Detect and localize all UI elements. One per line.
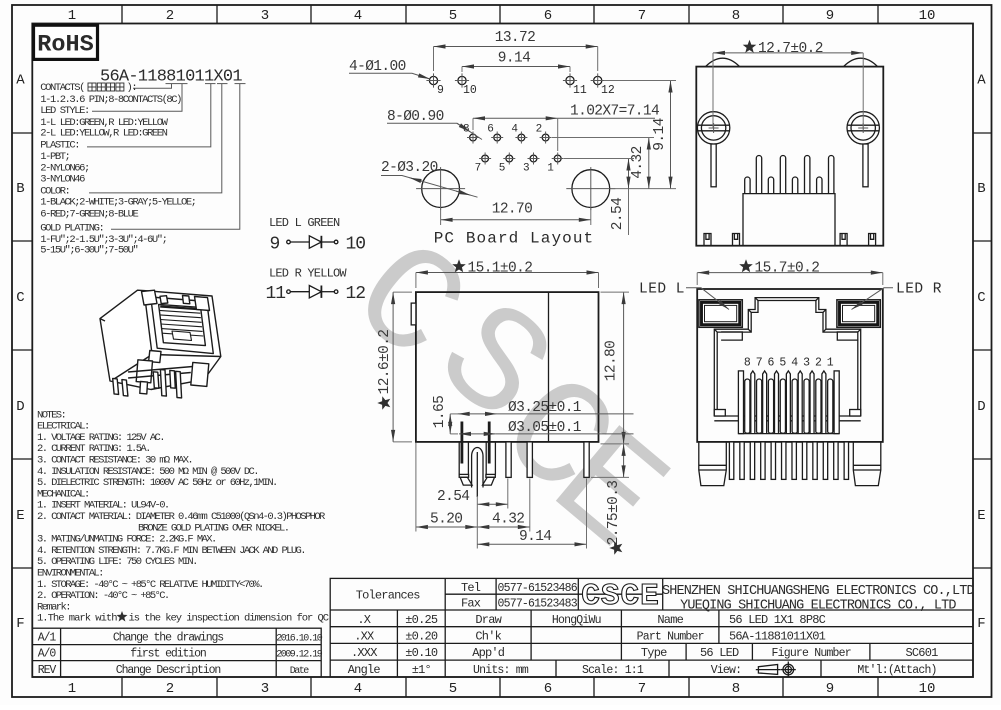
- svg-text:A/0: A/0: [38, 648, 57, 661]
- bottom notches: [704, 234, 711, 246]
- svg-text:C: C: [16, 290, 24, 306]
- snap post (split prongs): [458, 442, 460, 475]
- svg-text:15.1±0.2: 15.1±0.2: [468, 261, 533, 277]
- svg-text:Mt'l:(Attach): Mt'l:(Attach): [857, 664, 936, 677]
- svg-text:Scale: 1:1: Scale: 1:1: [582, 664, 644, 677]
- svg-text:NOTES:: NOTES:: [37, 409, 65, 421]
- svg-text:Units: mm: Units: mm: [473, 664, 529, 677]
- dim 4.32 (side): [477, 526, 530, 528]
- svg-text:3: 3: [261, 681, 269, 697]
- svg-text:56 LED: 56 LED: [700, 646, 739, 660]
- svg-text:6: 6: [768, 357, 775, 370]
- svg-text:B: B: [977, 181, 985, 197]
- svg-text:2.54: 2.54: [437, 489, 469, 505]
- dim 2.54 vertical: [628, 159, 630, 189]
- svg-text:1: 1: [827, 357, 834, 370]
- svg-text:6: 6: [544, 8, 552, 24]
- svg-text:2016.10.10: 2016.10.10: [276, 634, 323, 645]
- svg-text:7: 7: [638, 8, 646, 24]
- svg-text:4-Ø1.00: 4-Ø1.00: [349, 59, 406, 75]
- cavity outline inner: [717, 301, 858, 417]
- RoHS logo box: [34, 25, 98, 59]
- svg-text:ENVIRONMENTAL:: ENVIRONMENTAL:: [37, 568, 103, 580]
- isometric view of connector: [100, 290, 221, 398]
- svg-text:15.7±0.2: 15.7±0.2: [755, 261, 820, 277]
- LED ledges: [721, 332, 742, 340]
- svg-text:BRONZE GOLD PLATING OVER NICKE: BRONZE GOLD PLATING OVER NICKEL.: [138, 522, 288, 534]
- svg-text:2-Ø3.20: 2-Ø3.20: [381, 160, 438, 176]
- svg-text:ELECTRICAL:: ELECTRICAL:: [37, 421, 89, 433]
- svg-text:4: 4: [791, 357, 798, 370]
- svg-text:9.14: 9.14: [519, 529, 551, 545]
- row ticks left/right: [12, 132, 32, 134]
- svg-text:REV: REV: [38, 664, 57, 677]
- svg-text:CSCE: CSCE: [581, 579, 659, 614]
- svg-text:4.32: 4.32: [492, 512, 524, 528]
- svg-text:3: 3: [803, 357, 810, 370]
- svg-text:1.65: 1.65: [432, 396, 448, 428]
- svg-text:8: 8: [732, 681, 740, 697]
- svg-text:SHENZHEN SHICHUANGSHENG ELECTR: SHENZHEN SHICHUANGSHENG ELECTRONICS CO.,…: [662, 584, 975, 599]
- svg-text:5: 5: [449, 681, 457, 697]
- dim 12.70: [441, 219, 591, 221]
- svg-text:2.54: 2.54: [610, 198, 626, 230]
- svg-text:4: 4: [354, 8, 362, 24]
- cavity bottom ledge lines: [714, 415, 860, 417]
- LED windows: [699, 300, 742, 328]
- svg-text:B: B: [16, 181, 24, 197]
- svg-text:YUEQING SHICHUANG ELECTRONICS: YUEQING SHICHUANG ELECTRONICS CO., LTD: [680, 599, 956, 614]
- small holes 8,6,4,2 (top row): [470, 134, 477, 141]
- third angle projection symbol: [756, 662, 796, 678]
- svg-text:9.14: 9.14: [498, 51, 530, 67]
- svg-text:3: 3: [261, 8, 269, 24]
- bottom view body: [696, 67, 883, 246]
- svg-text:4: 4: [354, 681, 362, 697]
- svg-text:10: 10: [919, 8, 936, 24]
- svg-text:PC Board Layout: PC Board Layout: [434, 230, 595, 248]
- svg-text:E: E: [977, 508, 985, 524]
- svg-text:7: 7: [638, 681, 646, 697]
- svg-text:4. INSULATION RESISTANCE: 500: 4. INSULATION RESISTANCE: 500 MΩ MIN @ 5…: [37, 466, 258, 478]
- svg-text:5: 5: [779, 357, 786, 370]
- svg-text:12.6±0.2: 12.6±0.2: [377, 330, 393, 395]
- svg-text:C: C: [977, 290, 985, 306]
- svg-text:first edition: first edition: [130, 648, 206, 661]
- dim 1.65: [449, 414, 451, 434]
- cavity step miters: [714, 329, 717, 332]
- svg-text:View:: View:: [711, 664, 742, 677]
- svg-text:3: 3: [523, 163, 530, 175]
- svg-text:4: 4: [511, 124, 518, 136]
- svg-text:.XX: .XX: [354, 630, 374, 644]
- svg-text:CONTACTS(: CONTACTS(: [40, 82, 84, 94]
- svg-text:1-BLACK;2-WHITE;3-GRAY;5-YELLO: 1-BLACK;2-WHITE;3-GRAY;5-YELLOE;: [40, 197, 195, 209]
- svg-text:1. INSERT MATERIAL: UL94V-0.: 1. INSERT MATERIAL: UL94V-0.: [37, 500, 169, 512]
- svg-text:Part Number: Part Number: [637, 631, 704, 644]
- contacts: [745, 379, 750, 433]
- svg-text:F: F: [16, 616, 24, 632]
- big circles 2-Ø3.20: [422, 170, 460, 208]
- svg-text:5.20: 5.20: [430, 512, 462, 528]
- svg-text:6: 6: [487, 124, 494, 136]
- svg-text:9: 9: [270, 235, 280, 255]
- svg-text:1: 1: [547, 163, 554, 175]
- svg-text:2-L LED:YELLOW,R LED:GREEN: 2-L LED:YELLOW,R LED:GREEN: [40, 128, 167, 140]
- svg-text:Type: Type: [641, 646, 667, 660]
- side view body: [416, 292, 599, 442]
- svg-text:3. CONTACT RESISTANCE: 30 mΩ M: 3. CONTACT RESISTANCE: 30 mΩ MAX.: [37, 455, 192, 467]
- svg-text:1-1.2.3.6 PIN;8-8CONTACTS(8C): 1-1.2.3.6 PIN;8-8CONTACTS(8C): [40, 94, 181, 106]
- front view body: [697, 289, 883, 442]
- svg-text:5: 5: [499, 163, 506, 175]
- dim Ø3.25±0.1: [458, 413, 497, 415]
- svg-text:6: 6: [544, 681, 552, 697]
- svg-text:.X: .X: [357, 613, 370, 627]
- svg-text:):: ):: [127, 82, 137, 94]
- dim 9.14 (side): [477, 543, 586, 545]
- svg-text:1.The mark with: 1.The mark with: [37, 613, 117, 625]
- svg-text:10: 10: [919, 681, 936, 697]
- svg-text:8: 8: [732, 8, 740, 24]
- center base block: [743, 194, 835, 246]
- svg-text:7: 7: [475, 163, 482, 175]
- side tab: [411, 303, 416, 325]
- svg-text:2009.12.19: 2009.12.19: [276, 650, 323, 661]
- svg-text:HongQiWu: HongQiWu: [552, 614, 601, 627]
- svg-text:2. CURRENT RATING: 1.5A.: 2. CURRENT RATING: 1.5A.: [37, 443, 150, 455]
- svg-text:LED R YELLOW: LED R YELLOW: [269, 267, 347, 281]
- svg-text:Remark:: Remark:: [37, 601, 70, 613]
- comb teeth: [751, 371, 755, 434]
- shield fingers below body: [729, 442, 733, 480]
- svg-text:±1°: ±1°: [412, 663, 431, 677]
- svg-text:A/1: A/1: [38, 632, 57, 645]
- svg-text:12.7±0.2: 12.7±0.2: [758, 41, 823, 57]
- svg-text:2: 2: [166, 8, 174, 24]
- svg-text:9: 9: [826, 8, 834, 24]
- cavity outline outer: [714, 298, 860, 416]
- PCB pins (side view): [506, 442, 511, 478]
- svg-text:1-PBT;: 1-PBT;: [40, 151, 69, 163]
- dim 12.80: [623, 292, 625, 444]
- svg-text:GOLD PLATING:: GOLD PLATING:: [40, 223, 103, 235]
- svg-text:Tolerances: Tolerances: [356, 589, 421, 603]
- svg-text:2. OPERATION: -40°C ~ +85°C.: 2. OPERATION: -40°C ~ +85°C.: [37, 590, 169, 602]
- dim 15.1±0.2: [416, 272, 599, 274]
- svg-text:56 LED 1X1 8P8C: 56 LED 1X1 8P8C: [729, 613, 826, 627]
- side posts: [699, 442, 727, 486]
- svg-text:LED L GREEN: LED L GREEN: [269, 216, 340, 230]
- svg-text:7: 7: [756, 357, 763, 370]
- svg-text:PLASTIC:: PLASTIC:: [40, 139, 79, 151]
- svg-text:A: A: [977, 73, 986, 89]
- svg-text:4. RETENTION STRENGTH: 7.7KG.F: 4. RETENTION STRENGTH: 7.7KG.F MIN BETWE…: [37, 545, 305, 557]
- svg-text:2. CONTACT MATERIAL: DIAMETER: 2. CONTACT MATERIAL: DIAMETER 0.46mm C51…: [37, 511, 326, 523]
- LED posts (circles): [697, 112, 729, 144]
- svg-text:8: 8: [744, 357, 751, 370]
- svg-text:4.32: 4.32: [630, 146, 646, 178]
- LED legs: [711, 144, 716, 187]
- svg-text:5. OPERATING LIFE: 750 CYCLES: 5. OPERATING LIFE: 750 CYCLES MIN.: [37, 556, 197, 568]
- svg-text:Tel: Tel: [461, 581, 481, 595]
- svg-text:Ø3.05±0.1: Ø3.05±0.1: [508, 420, 581, 436]
- svg-text:Figure Number: Figure Number: [772, 647, 851, 660]
- svg-text:5: 5: [449, 8, 457, 24]
- dim 9.14 vertical: [670, 81, 672, 189]
- svg-text:MECHANICAL:: MECHANICAL:: [37, 488, 89, 500]
- svg-text:2: 2: [536, 124, 543, 136]
- svg-text:SC601: SC601: [905, 646, 938, 660]
- legend leader lines: [133, 84, 172, 89]
- svg-text:2: 2: [815, 357, 822, 370]
- svg-text:12.80: 12.80: [604, 341, 620, 382]
- svg-text:8-Ø0.90: 8-Ø0.90: [387, 109, 444, 125]
- svg-text:56A-11881011X01: 56A-11881011X01: [729, 630, 826, 644]
- svg-text:1: 1: [68, 8, 76, 24]
- dim 5.20: [416, 526, 477, 528]
- dim 12.7±0.2: [713, 52, 863, 54]
- part-number digit underlines: [166, 83, 177, 85]
- svg-text:5-15U";6-30U";7-50U": 5-15U";6-30U";7-50U": [40, 244, 137, 256]
- revision table: [32, 628, 321, 677]
- svg-text:9: 9: [826, 681, 834, 697]
- svg-text:LED R: LED R: [896, 282, 942, 298]
- title block: [330, 578, 973, 677]
- contact tails (side, thick): [460, 422, 463, 464]
- svg-text:1. VOLTAGE RATING: 125V AC.: 1. VOLTAGE RATING: 125V AC.: [37, 432, 164, 444]
- column ticks top/bottom: [121, 5, 123, 24]
- dim 15.7±0.2: [697, 272, 883, 274]
- svg-text:12.70: 12.70: [492, 202, 533, 218]
- side view face divider: [548, 292, 550, 442]
- svg-text:9: 9: [437, 84, 444, 97]
- svg-text:LED L: LED L: [639, 282, 685, 298]
- svg-text:Name: Name: [657, 613, 683, 627]
- svg-text:11: 11: [573, 84, 587, 97]
- svg-text:Ch'k: Ch'k: [475, 630, 501, 644]
- svg-text:A: A: [16, 73, 25, 89]
- svg-text:F: F: [977, 616, 985, 632]
- svg-text:D: D: [977, 399, 985, 415]
- svg-text:10: 10: [346, 235, 366, 255]
- svg-text:E: E: [16, 508, 24, 524]
- svg-text:1: 1: [68, 681, 76, 697]
- svg-text:±0.25: ±0.25: [405, 613, 438, 627]
- svg-text:Angle: Angle: [348, 663, 381, 677]
- dim Ø3.05±0.1: [459, 433, 496, 435]
- svg-text:.XXX: .XXX: [351, 646, 377, 660]
- cavity corner blocks: [714, 410, 725, 417]
- dim 4.32 vertical: [648, 138, 650, 189]
- svg-text:1. STORAGE: -40°C ~ +85°C RELA: 1. STORAGE: -40°C ~ +85°C RELATIVE HUMID…: [37, 579, 263, 591]
- svg-text:12: 12: [346, 284, 366, 304]
- svg-text:App'd: App'd: [472, 646, 505, 660]
- svg-text:9.14: 9.14: [652, 118, 668, 150]
- svg-text:±0.10: ±0.10: [405, 646, 438, 660]
- svg-text:12: 12: [601, 84, 615, 97]
- svg-text:1.02X7=7.14: 1.02X7=7.14: [570, 104, 659, 120]
- svg-text:3. MATING/UNMATING FORCE: 2.2K: 3. MATING/UNMATING FORCE: 2.2KG.F MAX.: [37, 534, 216, 546]
- svg-text:Ø3.25±0.1: Ø3.25±0.1: [508, 400, 581, 416]
- dim 2.54 (side): [477, 503, 508, 505]
- holes 9-12 (4-Ø1.00): [429, 76, 437, 84]
- dome bumps: [706, 58, 740, 66]
- svg-text:5. DIELECTRIC STRENGTH: 1000V: 5. DIELECTRIC STRENGTH: 1000V AC 50Hz or…: [37, 477, 277, 489]
- svg-text:2: 2: [166, 681, 174, 697]
- svg-text:Change Description: Change Description: [116, 664, 221, 677]
- svg-text:LED STYLE:: LED STYLE:: [40, 105, 89, 117]
- svg-text:13.72: 13.72: [495, 30, 536, 46]
- svg-text:0577-61523486: 0577-61523486: [498, 582, 578, 595]
- svg-text:±0.20: ±0.20: [405, 630, 438, 644]
- svg-text:2.75±0.3: 2.75±0.3: [606, 481, 622, 546]
- dim 2.75±0.3: [623, 444, 625, 478]
- svg-text:Change the drawings: Change the drawings: [113, 632, 223, 645]
- svg-text:D: D: [16, 399, 24, 415]
- svg-text:Fax: Fax: [461, 596, 481, 610]
- contact comb outer walls: [738, 371, 743, 434]
- svg-text:Draw: Draw: [475, 613, 502, 627]
- svg-text:COLOR:: COLOR:: [40, 185, 69, 197]
- svg-text:RoHS: RoHS: [37, 32, 93, 59]
- svg-text:Date: Date: [290, 666, 310, 677]
- svg-text:6-RED;7-GREEN;8-BLUE: 6-RED;7-GREEN;8-BLUE: [40, 209, 138, 221]
- svg-text:10: 10: [463, 84, 477, 97]
- staggered pins: [756, 155, 761, 193]
- svg-text:11: 11: [266, 284, 286, 304]
- dim 12.6±0.2: [392, 292, 394, 442]
- comb bottom line: [738, 433, 839, 435]
- svg-text:is the key inspection dimensio: is the key inspection dimension for QC: [129, 613, 329, 625]
- svg-text:3-NYLON46: 3-NYLON46: [40, 174, 85, 186]
- svg-text:0577-61523483: 0577-61523483: [498, 597, 578, 610]
